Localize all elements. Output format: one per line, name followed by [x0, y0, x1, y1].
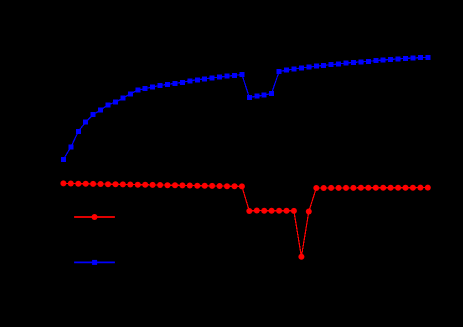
red series line — [63, 183, 427, 256]
red series circle markers — [60, 180, 430, 259]
legend blue square marker — [92, 260, 97, 265]
legend blue sample line — [74, 261, 115, 263]
legend red circle marker — [92, 214, 98, 220]
legend red sample line — [74, 216, 115, 218]
blue series line — [63, 58, 427, 160]
blue series square markers — [61, 55, 430, 162]
